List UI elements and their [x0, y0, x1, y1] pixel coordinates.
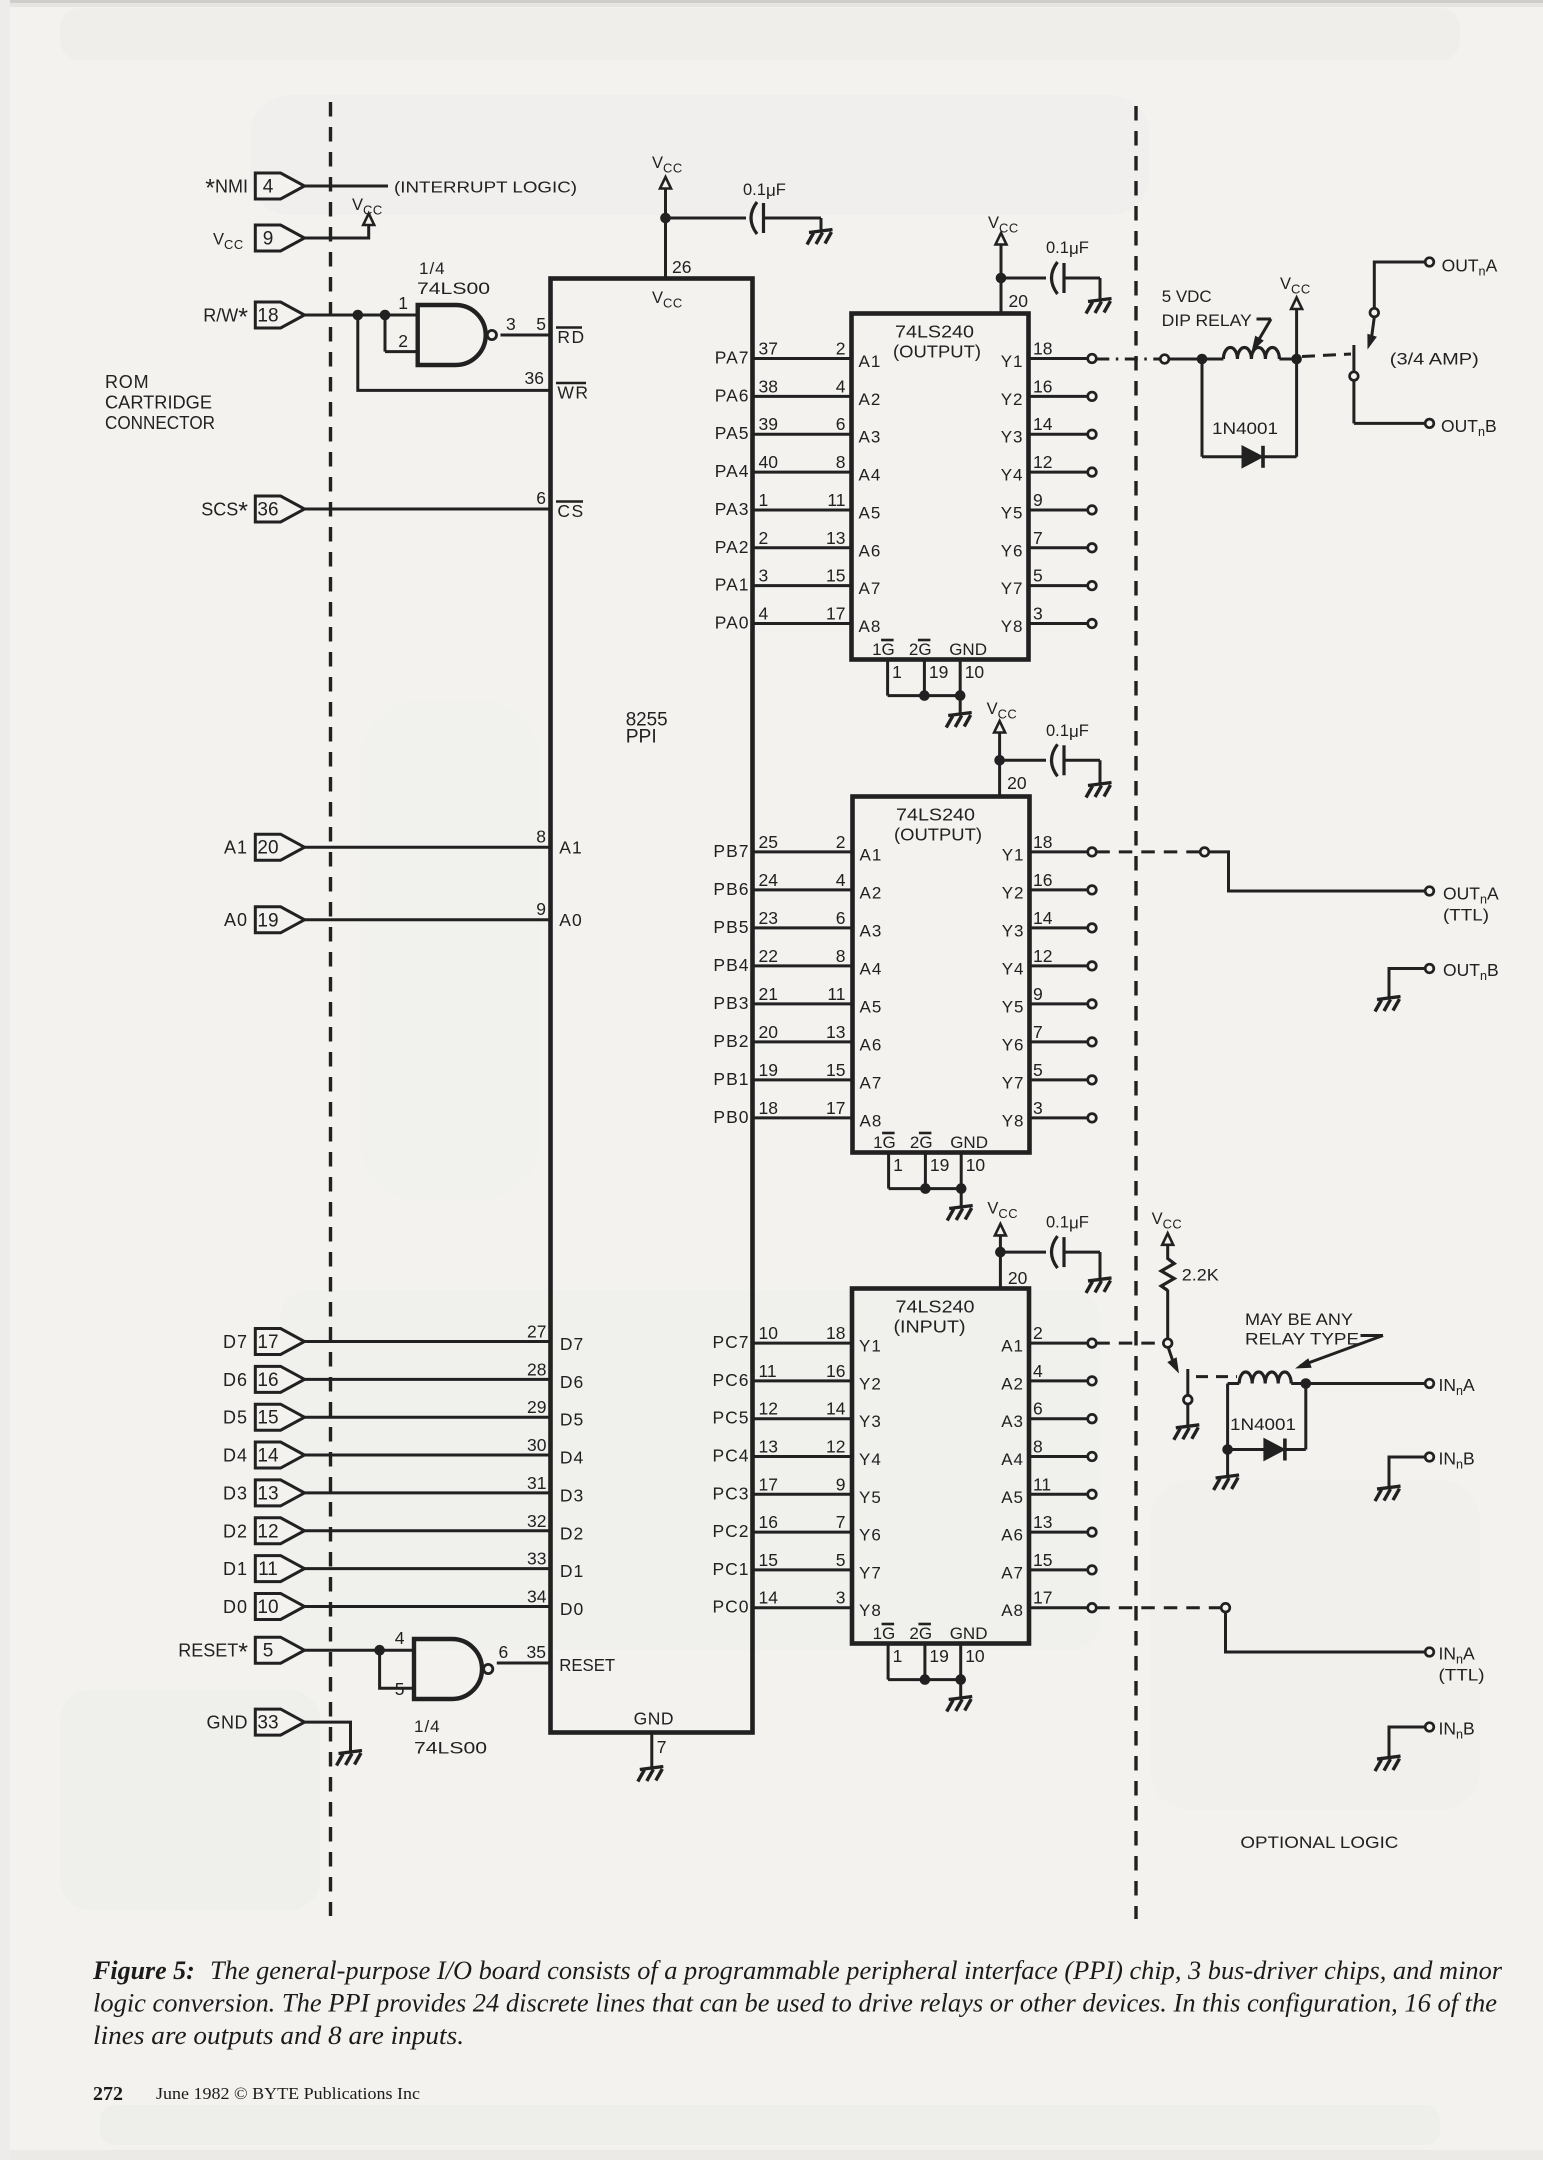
ground at K2 contact [1174, 1425, 1200, 1440]
svg-text:74LS00: 74LS00 [414, 1739, 487, 1758]
wire relay input to coil [1169, 358, 1202, 361]
relay K2 switch arm [1168, 1348, 1173, 1363]
wire NAND output to RESET pin 35 [497, 1662, 551, 1665]
node open terminal A3 (U4) [1088, 1414, 1097, 1423]
svg-text:A6: A6 [860, 1035, 883, 1054]
svg-text:A1: A1 [224, 838, 248, 858]
node open terminal A7 (U4) [1088, 1566, 1097, 1575]
svg-text:8: 8 [536, 827, 546, 847]
node open terminal Y5 (U3) [1088, 1000, 1097, 1009]
svg-text:3: 3 [759, 566, 769, 586]
svg-text:PA3: PA3 [715, 499, 750, 519]
svg-text:74LS00: 74LS00 [417, 279, 490, 298]
pin 20 stub (U3) [998, 760, 1001, 796]
node open terminal A5 (U4) [1088, 1490, 1097, 1499]
svg-text:74LS240: 74LS240 [896, 805, 975, 825]
svg-text:A8: A8 [1001, 1601, 1024, 1620]
svg-text:A2: A2 [1001, 1374, 1024, 1393]
svg-text:5 VDC: 5 VDC [1162, 287, 1212, 306]
svg-text:Y6: Y6 [1001, 541, 1024, 560]
svg-text:OUTnA: OUTnA [1442, 256, 1498, 279]
svg-text:D1: D1 [223, 1559, 248, 1579]
svg-text:GND: GND [950, 1624, 988, 1643]
svg-text:11: 11 [827, 490, 845, 510]
wire enable tie (U3) [889, 1187, 962, 1190]
ground at D2 [1214, 1475, 1240, 1490]
svg-text:A3: A3 [1001, 1412, 1024, 1431]
connector tag D6 pin 16 [255, 1366, 304, 1392]
svg-text:20: 20 [1007, 773, 1027, 793]
svg-text:A4: A4 [1001, 1450, 1024, 1469]
wire INnB to ground [1389, 1457, 1425, 1488]
svg-text:Y2: Y2 [859, 1374, 882, 1393]
wire VCC tag to VCC arrow [305, 225, 369, 238]
svg-text:19: 19 [257, 910, 278, 931]
diode D1 1N4001 [1242, 446, 1263, 468]
svg-text:A5: A5 [859, 503, 882, 522]
svg-text:PC0: PC0 [712, 1597, 749, 1617]
svg-text:19: 19 [759, 1060, 778, 1080]
svg-text:Y3: Y3 [1001, 428, 1024, 447]
svg-text:2G: 2G [910, 1133, 933, 1152]
node diode left junction (D2) [1222, 1444, 1233, 1455]
svg-text:DIP RELAY: DIP RELAY [1162, 311, 1252, 330]
svg-text:20: 20 [257, 838, 278, 859]
svg-text:PB6: PB6 [713, 879, 749, 899]
svg-text:18: 18 [1033, 832, 1052, 852]
svg-text:1G: 1G [873, 1624, 896, 1643]
node OUTnB terminal [1425, 419, 1434, 428]
connector tag D4 pin 14 [255, 1442, 304, 1468]
svg-text:272: 272 [93, 2083, 123, 2105]
svg-text:9: 9 [1033, 984, 1043, 1004]
svg-text:11: 11 [759, 1361, 777, 1381]
node VCC junction (U4) [995, 1247, 1006, 1258]
svg-text:1N4001: 1N4001 [1212, 419, 1278, 438]
node coil right junction (K2) [1301, 1378, 1312, 1389]
pointer to relay K2 [1361, 1334, 1384, 1337]
svg-text:15: 15 [826, 566, 845, 586]
node open terminal Y2 (U3) [1088, 886, 1097, 895]
svg-text:8: 8 [836, 452, 846, 472]
ground at enable pins (U4) [947, 1697, 973, 1712]
connector tag VCC pin 9 [255, 225, 304, 251]
svg-text:OUTnB: OUTnB [1443, 960, 1499, 983]
wire VCC to capacitor (U3) [1000, 759, 1046, 762]
node arm terminal [1370, 308, 1379, 317]
svg-text:D7: D7 [560, 1334, 584, 1354]
svg-text:14: 14 [257, 1446, 279, 1467]
svg-text:17: 17 [826, 604, 845, 624]
svg-text:4: 4 [836, 376, 846, 396]
svg-text:A4: A4 [860, 959, 883, 978]
svg-text:1: 1 [892, 662, 902, 682]
svg-text:4: 4 [395, 1628, 405, 1648]
svg-text:A2: A2 [859, 390, 882, 409]
wire junction1 to WR pin 36 [358, 315, 551, 390]
svg-text:(3/4 AMP): (3/4 AMP) [1390, 349, 1479, 368]
svg-text:OPTIONAL LOGIC: OPTIONAL LOGIC [1240, 1833, 1398, 1852]
connector tag R/W* pin 18 [255, 302, 304, 328]
node open terminal A4 (U4) [1088, 1452, 1097, 1461]
ground at enable pins (U3) [947, 1206, 973, 1221]
svg-text:2: 2 [398, 331, 408, 351]
svg-text:Y4: Y4 [1001, 466, 1024, 485]
svg-text:20: 20 [1008, 1268, 1028, 1288]
svg-text:0.1μF: 0.1μF [1046, 239, 1089, 258]
node coil right junction [1291, 354, 1302, 365]
dashed boundary line (ROM cartridge connector) [329, 102, 332, 1916]
svg-text:The general-purpose I/O board: The general-purpose I/O board consists o… [210, 1956, 1503, 1985]
svg-text:D7: D7 [223, 1332, 248, 1352]
node open terminal Y5 (U2) [1088, 506, 1097, 515]
svg-text:Y6: Y6 [1002, 1035, 1025, 1054]
svg-text:PA7: PA7 [715, 348, 750, 368]
svg-text:A7: A7 [1001, 1563, 1024, 1582]
svg-text:12: 12 [826, 1437, 845, 1457]
svg-text:Y7: Y7 [859, 1563, 882, 1582]
svg-text:24: 24 [759, 870, 779, 890]
op-amp U1a 1/4 74LS00 NAND [418, 305, 486, 365]
svg-text:1: 1 [893, 1155, 903, 1175]
svg-text:15: 15 [1033, 1550, 1052, 1570]
svg-text:Y1: Y1 [859, 1337, 882, 1356]
svg-text:Y2: Y2 [1001, 390, 1024, 409]
svg-text:PA5: PA5 [715, 423, 750, 443]
svg-text:1N4001: 1N4001 [1230, 1415, 1296, 1434]
node open terminal A6 (U4) [1088, 1528, 1097, 1537]
svg-text:21: 21 [759, 984, 778, 1004]
wire GND pin to ground (U4) [959, 1680, 962, 1698]
node enable junction 2 (U2) [955, 690, 966, 701]
svg-text:logic conversion. The PPI prov: logic conversion. The PPI provides 24 di… [93, 1989, 1497, 2018]
wire A0 to PPI pin 9 [305, 918, 551, 921]
U3 74LS240 (OUTPUT) body [853, 797, 1030, 1153]
svg-text:Y8: Y8 [1001, 617, 1024, 636]
svg-text:3: 3 [1033, 1098, 1043, 1118]
svg-text:17: 17 [826, 1098, 845, 1118]
svg-text:36: 36 [525, 368, 544, 388]
svg-text:RELAY TYPE: RELAY TYPE [1245, 1330, 1359, 1349]
wire switch to coil (dashed) [1196, 1375, 1237, 1378]
svg-text:18: 18 [826, 1323, 845, 1343]
svg-text:13: 13 [257, 1483, 278, 1504]
wire enable tie (U2) [888, 694, 961, 697]
connector tag D5 pin 15 [255, 1404, 304, 1430]
svg-text:36: 36 [257, 500, 278, 521]
svg-text:A7: A7 [859, 579, 882, 598]
wire Y1 (U3) dashed to TTL out [1096, 850, 1199, 853]
wire SCS* to CS pin 6 [305, 508, 551, 511]
wire enable tie (U4) [888, 1678, 961, 1681]
svg-text:(TTL): (TTL) [1443, 907, 1489, 925]
svg-text:(OUTPUT): (OUTPUT) [894, 825, 982, 845]
svg-text:74LS240: 74LS240 [895, 322, 974, 342]
svg-text:38: 38 [759, 376, 778, 396]
ground at INnB [1375, 1486, 1401, 1501]
wire OUTnB (TTL) to ground [1389, 969, 1425, 999]
svg-text:PPI: PPI [626, 726, 657, 748]
svg-text:GND: GND [207, 1713, 249, 1733]
svg-text:PC1: PC1 [712, 1559, 749, 1579]
svg-text:(TTL): (TTL) [1439, 1667, 1485, 1685]
enable pin stubs (U2) [886, 660, 889, 696]
svg-text:A1: A1 [859, 352, 882, 371]
connector tag *NMI pin 4 [255, 173, 304, 199]
svg-text:2: 2 [836, 339, 846, 359]
wire junction to NAND input 5 [380, 1650, 414, 1688]
svg-text:(INPUT): (INPUT) [894, 1317, 966, 1337]
svg-text:CONNECTOR: CONNECTOR [105, 413, 215, 433]
ground at capacitor (U4) [1086, 1278, 1112, 1293]
wire to OUTnB [1354, 422, 1425, 425]
svg-text:D5: D5 [223, 1408, 248, 1428]
svg-text:1: 1 [759, 490, 769, 510]
wire D7 to PPI pin 27 [305, 1340, 551, 1343]
relay K1 coil [1202, 358, 1223, 361]
svg-text:A4: A4 [859, 466, 882, 485]
svg-text:1: 1 [893, 1646, 903, 1666]
power VCC symbol (U2) [996, 233, 1007, 245]
capacitor 0.1uF (U4) [1052, 1236, 1065, 1268]
svg-text:35: 35 [527, 1642, 546, 1662]
svg-text:4: 4 [759, 604, 769, 624]
svg-text:3: 3 [506, 314, 516, 334]
node INnB terminal [1425, 1453, 1434, 1462]
svg-text:Y8: Y8 [859, 1601, 882, 1620]
svg-text:Y1: Y1 [1001, 352, 1024, 371]
node INnB 2 terminal [1425, 1723, 1434, 1732]
svg-text:D6: D6 [223, 1370, 248, 1390]
node INnA (TTL) terminal [1425, 1648, 1434, 1657]
svg-text:16: 16 [826, 1361, 845, 1381]
svg-text:8: 8 [1033, 1437, 1043, 1457]
8255 PPI chip U1 body [551, 279, 753, 1733]
svg-text:D6: D6 [560, 1372, 584, 1392]
svg-text:22: 22 [759, 946, 778, 966]
svg-text:A6: A6 [1001, 1526, 1024, 1545]
wire junction2 to NAND input 2 [384, 315, 387, 352]
PPI pin 7 GND stub [650, 1733, 653, 1769]
ground at C1 [807, 230, 833, 245]
svg-text:PA4: PA4 [715, 461, 750, 481]
svg-text:18: 18 [759, 1098, 778, 1118]
svg-text:14: 14 [1033, 908, 1053, 928]
wire *NMI to interrupt logic [305, 185, 389, 188]
node open terminal Y8 (U3) [1088, 1114, 1097, 1123]
wire VCC to capacitor C1 [666, 217, 747, 220]
svg-text:D4: D4 [223, 1446, 248, 1466]
node R/W* junction 1 [353, 310, 364, 321]
PPI pin 26 VCC stub [664, 218, 667, 279]
svg-text:D3: D3 [223, 1483, 248, 1503]
relay K1 switch arm [1372, 317, 1375, 338]
svg-text:PA6: PA6 [715, 385, 750, 405]
node relay input terminal [1160, 355, 1169, 364]
svg-text:2: 2 [836, 832, 846, 852]
ground at capacitor (U2) [1086, 299, 1112, 314]
svg-text:PA1: PA1 [715, 575, 750, 595]
svg-text:RD: RD [557, 327, 585, 347]
svg-text:PC6: PC6 [712, 1370, 749, 1390]
svg-text:D5: D5 [560, 1410, 584, 1430]
svg-text:29: 29 [527, 1397, 546, 1417]
svg-text:June 1982 © BYTE Publications: June 1982 © BYTE Publications Inc [156, 2084, 420, 2103]
svg-text:10: 10 [966, 1155, 986, 1175]
svg-text:39: 39 [759, 414, 778, 434]
svg-text:2: 2 [759, 528, 769, 548]
svg-text:16: 16 [1033, 870, 1052, 890]
node R/W* junction 2 [380, 310, 391, 321]
svg-text:D3: D3 [560, 1485, 584, 1505]
svg-text:PC3: PC3 [712, 1483, 749, 1503]
svg-text:Y6: Y6 [859, 1526, 882, 1545]
svg-text:12: 12 [759, 1399, 778, 1419]
node open terminal Y1 (U3) [1088, 848, 1097, 857]
svg-text:11: 11 [1033, 1474, 1051, 1494]
svg-text:6: 6 [1033, 1399, 1043, 1419]
svg-text:32: 32 [527, 1511, 546, 1531]
svg-text:WR: WR [557, 383, 589, 403]
resistor R1 2.2K [1166, 1245, 1169, 1260]
svg-text:Y4: Y4 [1002, 959, 1025, 978]
U4 74LS240 (INPUT) body [852, 1289, 1029, 1644]
wire capacitor C1 to ground [764, 217, 822, 220]
svg-text:25: 25 [759, 832, 778, 852]
svg-text:15: 15 [826, 1060, 845, 1080]
node open terminal Y6 (U3) [1088, 1038, 1097, 1047]
node K2 contact [1184, 1395, 1193, 1404]
svg-text:10: 10 [965, 662, 985, 682]
wire INnB 2 to ground [1389, 1727, 1425, 1758]
node switch contact [1350, 372, 1359, 381]
svg-text:7: 7 [836, 1512, 846, 1532]
capacitor C1 0.1uF [751, 202, 764, 234]
power VCC symbol at tag [363, 214, 374, 226]
connector tag D2 pin 12 [255, 1518, 304, 1544]
svg-text:20: 20 [759, 1022, 779, 1042]
node open terminal Y3 (U2) [1088, 430, 1097, 439]
node enable junction 2 (U3) [956, 1183, 967, 1194]
svg-text:Y7: Y7 [1002, 1073, 1025, 1092]
svg-text:GND: GND [634, 1709, 674, 1729]
svg-text:40: 40 [759, 452, 779, 472]
node coil left junction [1197, 354, 1208, 365]
svg-text:Y1: Y1 [1002, 845, 1025, 864]
diode D1 1N4001 loop [1201, 359, 1204, 457]
wire D3 to PPI pin 31 [305, 1491, 551, 1494]
svg-text:PC4: PC4 [712, 1446, 749, 1466]
svg-text:19: 19 [929, 662, 948, 682]
wire A8 (U4) dashed to TTL in [1096, 1606, 1220, 1609]
node open terminal A8 (U4) [1088, 1603, 1097, 1612]
svg-text:9: 9 [836, 1474, 846, 1494]
pointer to relay coil [1257, 318, 1272, 321]
svg-text:4: 4 [263, 177, 274, 198]
ground at INnB 2 [1375, 1756, 1401, 1771]
svg-text:31: 31 [527, 1473, 546, 1493]
svg-text:6: 6 [536, 488, 546, 508]
svg-text:13: 13 [826, 528, 845, 548]
svg-text:A1: A1 [559, 838, 582, 858]
svg-text:D2: D2 [560, 1523, 584, 1543]
svg-text:MAY BE ANY: MAY BE ANY [1245, 1310, 1353, 1329]
svg-text:7: 7 [1033, 1022, 1043, 1042]
power VCC symbol (relay K1) [1295, 309, 1298, 359]
svg-text:Y8: Y8 [1002, 1111, 1025, 1130]
connector tag D7 pin 17 [255, 1329, 304, 1355]
node VCC junction (pin 26) [660, 213, 671, 224]
svg-text:0.1μF: 0.1μF [743, 181, 786, 200]
relay K1 switch pole [1352, 345, 1355, 372]
svg-text:D0: D0 [560, 1599, 584, 1619]
svg-text:A5: A5 [1001, 1488, 1024, 1507]
svg-text:A3: A3 [859, 428, 882, 447]
svg-text:A2: A2 [860, 883, 883, 902]
svg-text:CARTRIDGE: CARTRIDGE [105, 393, 212, 413]
node open terminal Y1 (U2) [1088, 354, 1097, 363]
U2 74LS240 (OUTPUT) body [852, 314, 1029, 660]
wire VCC to capacitor (U4) [1000, 1251, 1046, 1254]
svg-text:Figure 5:: Figure 5: [92, 1956, 195, 1985]
svg-text:Y7: Y7 [1001, 579, 1024, 598]
svg-text:9: 9 [263, 229, 274, 250]
svg-text:Y2: Y2 [1002, 883, 1025, 902]
node RESET junction [374, 1645, 385, 1656]
svg-text:Y5: Y5 [859, 1488, 882, 1507]
wire D1 to PPI pin 33 [305, 1567, 551, 1570]
node INnA terminal [1425, 1379, 1434, 1388]
wire capacitor to ground (U4) [1064, 1251, 1100, 1254]
svg-text:15: 15 [759, 1550, 778, 1570]
svg-text:12: 12 [257, 1521, 278, 1542]
svg-text:19: 19 [929, 1646, 948, 1666]
wire coil to INnA [1306, 1382, 1425, 1385]
svg-text:18: 18 [257, 306, 278, 327]
wire GND pin to ground (U2) [959, 696, 962, 714]
svg-text:PC2: PC2 [712, 1521, 749, 1541]
node enable junction 1 (U2) [919, 690, 930, 701]
power VCC symbol (U4) [995, 1224, 1006, 1236]
svg-text:PC5: PC5 [712, 1408, 749, 1428]
wire NAND output to RD [501, 334, 551, 337]
svg-text:PB1: PB1 [713, 1069, 749, 1089]
svg-text:13: 13 [826, 1022, 845, 1042]
svg-text:PB2: PB2 [713, 1031, 749, 1051]
svg-text:19: 19 [930, 1155, 949, 1175]
connector tag D3 pin 13 [255, 1480, 304, 1506]
wire GND tag to ground [305, 1722, 351, 1752]
svg-text:Y5: Y5 [1001, 503, 1024, 522]
wire Y1 to relay (dash-dot) [1096, 358, 1160, 361]
wire coil to switch (dashed) [1302, 354, 1351, 357]
svg-text:23: 23 [759, 908, 778, 928]
wire D0 to PPI pin 34 [305, 1605, 551, 1608]
connector tag GND pin 33 [255, 1709, 304, 1735]
power VCC symbol (U3) [994, 721, 1005, 733]
node open terminal Y4 (U3) [1088, 962, 1097, 971]
svg-text:15: 15 [257, 1408, 278, 1429]
svg-text:14: 14 [1033, 414, 1053, 434]
enable pin stubs (U4) [887, 1644, 890, 1680]
relay K2 coil [1228, 1382, 1240, 1385]
wire D5 to PPI pin 29 [305, 1416, 551, 1419]
svg-text:10: 10 [257, 1597, 278, 1618]
svg-text:7: 7 [657, 1737, 667, 1757]
connector tag D0 pin 10 [255, 1593, 304, 1619]
svg-text:PA2: PA2 [715, 537, 750, 557]
svg-text:CS: CS [557, 501, 584, 521]
